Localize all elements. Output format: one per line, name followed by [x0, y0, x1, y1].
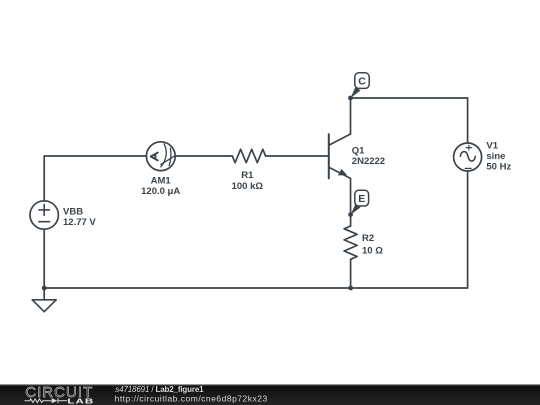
wire: R2 to bottom row	[350, 259, 352, 288]
logo waveform	[25, 398, 68, 403]
wire: bottom row	[44, 287, 467, 289]
node E flag	[351, 190, 369, 214]
svg-text:Q1: Q1	[352, 146, 365, 157]
svg-text:C: C	[358, 76, 366, 88]
wire: R1 to Q1 base	[266, 155, 329, 157]
svg-text:http://circuitlab.com/cne6d8p7: http://circuitlab.com/cne6d8p72kx23	[115, 394, 268, 404]
wire: collector up to node C	[350, 98, 352, 134]
voltage source V1 (sine)	[454, 143, 482, 171]
wire: ammeter to R1	[175, 155, 232, 157]
wire: VBB bottom to ground junction	[43, 229, 45, 300]
svg-text:V1: V1	[486, 140, 498, 151]
resistor R2	[344, 226, 357, 259]
transistor Q1 2N2222	[329, 134, 351, 178]
wire: emitter down to node E and R2	[350, 178, 352, 226]
logo LAB	[67, 397, 94, 405]
svg-text:sine: sine	[486, 151, 505, 162]
ground	[32, 300, 56, 312]
wire: base row left segment (VBB top to ammeter)	[44, 156, 146, 201]
svg-text:LAB: LAB	[67, 397, 94, 405]
svg-text:2N2222: 2N2222	[352, 156, 385, 167]
junction dot at R2 bottom	[348, 286, 353, 291]
svg-text:10 Ω: 10 Ω	[362, 245, 383, 256]
footer bar	[0, 384, 540, 405]
svg-text:100 kΩ: 100 kΩ	[232, 181, 264, 192]
wire: top row node C to right	[351, 97, 468, 99]
svg-text:50 Hz: 50 Hz	[486, 162, 511, 173]
svg-text:E: E	[358, 193, 365, 205]
svg-text:R1: R1	[241, 170, 254, 181]
svg-text:R2: R2	[362, 233, 374, 244]
resistor R1	[232, 149, 265, 162]
junction dot at ground	[42, 286, 47, 291]
voltage source VBB	[30, 201, 58, 229]
svg-text:VBB: VBB	[63, 206, 83, 217]
wire: right vertical top (to V1)	[467, 98, 469, 143]
svg-text:120.0 μA: 120.0 μA	[141, 186, 180, 197]
junction dot at node C	[348, 96, 353, 101]
ammeter AM1	[146, 142, 175, 171]
junction dot at node E	[348, 212, 353, 217]
wire: right vertical bottom (V1 to bottom row)	[467, 171, 469, 288]
node C flag	[351, 73, 370, 98]
svg-text:12.77 V: 12.77 V	[63, 217, 96, 228]
